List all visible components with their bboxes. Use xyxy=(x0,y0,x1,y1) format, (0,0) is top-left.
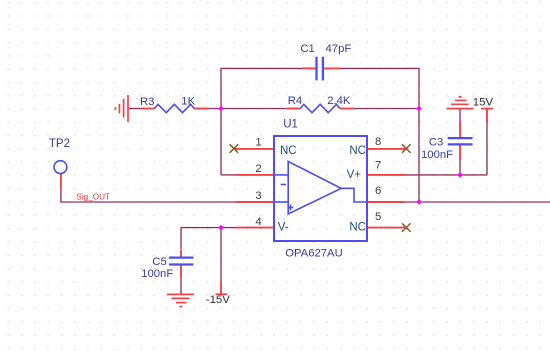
svg-text:4: 4 xyxy=(255,216,261,228)
svg-text:TP2: TP2 xyxy=(49,138,70,150)
svg-text:100nF: 100nF xyxy=(421,149,453,161)
svg-text:NC: NC xyxy=(349,145,366,157)
svg-text:47pF: 47pF xyxy=(326,43,352,55)
svg-text:100nF: 100nF xyxy=(141,268,173,280)
svg-text:U1: U1 xyxy=(283,119,298,131)
svg-text:C1: C1 xyxy=(300,43,314,55)
svg-text:-15V: -15V xyxy=(206,294,230,306)
svg-text:R3: R3 xyxy=(140,96,154,108)
svg-text:2.4K: 2.4K xyxy=(327,95,351,107)
svg-text:C5: C5 xyxy=(152,256,166,268)
svg-text:1K: 1K xyxy=(181,96,195,108)
svg-text:V-: V- xyxy=(278,222,289,234)
svg-text:NC: NC xyxy=(280,145,297,157)
svg-text:5: 5 xyxy=(375,211,381,223)
svg-text:C3: C3 xyxy=(429,136,443,148)
svg-text:R4: R4 xyxy=(288,95,302,107)
svg-text:15V: 15V xyxy=(473,96,494,108)
svg-text:V+: V+ xyxy=(347,169,362,181)
svg-text:NC: NC xyxy=(349,222,366,234)
svg-text:7: 7 xyxy=(375,160,381,172)
svg-text:1: 1 xyxy=(255,137,261,149)
svg-text:8: 8 xyxy=(375,136,381,148)
svg-text:2: 2 xyxy=(255,163,261,175)
svg-text:3: 3 xyxy=(255,190,261,202)
svg-text:6: 6 xyxy=(375,185,381,197)
svg-text:Sig_OUT: Sig_OUT xyxy=(76,193,110,202)
svg-text:OPA627AU: OPA627AU xyxy=(285,248,343,260)
